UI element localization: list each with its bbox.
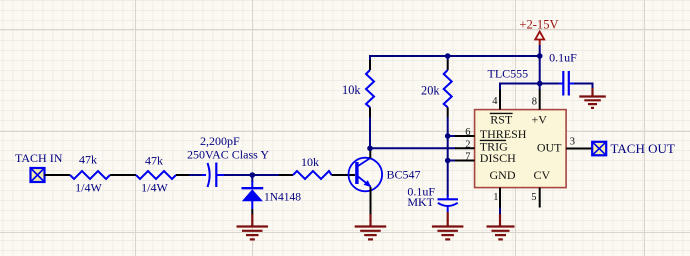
U1 pin name RST (overline): [480, 113, 562, 182]
pin: R5 bottom black: [447, 107, 449, 117]
svg-text:7: 7: [465, 152, 470, 163]
wire: THRESH line navy: [448, 135, 456, 137]
wire: diode drop navy: [251, 175, 253, 182]
port TACH IN: [15, 151, 63, 182]
wire: navy to C1: [189, 174, 202, 176]
svg-text:250VAC Class Y: 250VAC Class Y: [187, 148, 269, 162]
resistor R2 47k: [136, 154, 176, 195]
ground under D1: [237, 214, 269, 239]
wire: power rail top navy: [370, 56, 540, 70]
svg-text:10k: 10k: [342, 83, 361, 97]
capacitor C2 0.1uF MKT: [407, 185, 458, 213]
svg-text:2: 2: [465, 139, 470, 150]
capacitor C3 0.1uF: [549, 51, 577, 96]
wire: port to R1 (black lead): [45, 174, 71, 176]
pin 4 RST: [499, 90, 501, 110]
pin: Q1 emitter black: [370, 187, 372, 215]
wire: R1 to R2 (black leads): [110, 174, 136, 176]
pin: Q1 collector black: [369, 151, 371, 158]
svg-text:1N4148: 1N4148: [264, 192, 301, 204]
wire: RST tie navy: [500, 84, 540, 91]
svg-text:CV: CV: [534, 168, 551, 182]
ground under C2: [432, 212, 464, 239]
pin 6 THRESH: [455, 135, 475, 137]
svg-text:RST: RST: [490, 113, 513, 127]
wire: OUT to port navy: [586, 148, 592, 150]
pin 2 TRIG: [455, 147, 475, 149]
ground right of C3: [579, 88, 606, 108]
node junction TRIG: [367, 146, 373, 152]
resistor R4 10k (vertical): [342, 60, 374, 107]
svg-text:47k: 47k: [79, 153, 97, 167]
node junction at diode: [250, 172, 256, 178]
svg-text:TLC555: TLC555: [488, 67, 529, 81]
wire: TRIG line navy: [370, 147, 456, 149]
svg-text:TACH IN: TACH IN: [15, 151, 63, 165]
wire: VCC vertical navy: [539, 45, 541, 90]
pin 1 GND: [499, 188, 501, 208]
pin 8 +V: [539, 90, 541, 110]
svg-text:DISCH: DISCH: [480, 151, 516, 165]
svg-text:5: 5: [531, 192, 536, 203]
node junction bypass: [537, 81, 543, 87]
wire: C3 to ground navy: [574, 84, 593, 89]
svg-text:OUT: OUT: [537, 140, 562, 154]
svg-text:1/4W: 1/4W: [75, 181, 102, 195]
svg-text:GND: GND: [490, 168, 516, 182]
port TACH OUT: [592, 141, 675, 156]
svg-text:2,200pF: 2,200pF: [200, 134, 240, 148]
transistor Q1 BC547: [349, 158, 421, 192]
pin 5 CV: [539, 188, 541, 208]
pin: diode bottom black: [251, 209, 253, 215]
svg-text:10k: 10k: [301, 155, 319, 169]
svg-text:BC547: BC547: [387, 168, 421, 182]
power port +2-15V: [519, 18, 558, 46]
wire: R2 lead black: [176, 174, 189, 176]
svg-text:+V: +V: [532, 113, 548, 127]
wire: junction to R3 (navy then black lead): [279, 174, 293, 176]
pin name TRIG (overline): [480, 139, 506, 141]
wire: C1 to junction to 10k: [224, 174, 279, 176]
wire: DISCH line navy: [448, 160, 456, 162]
node junction DISCH: [445, 158, 451, 164]
svg-text:1/4W: 1/4W: [141, 181, 168, 195]
svg-text:8: 8: [532, 97, 537, 108]
svg-text:20k: 20k: [421, 84, 440, 98]
node junction THRESH: [445, 133, 451, 139]
svg-text:3: 3: [570, 137, 575, 148]
svg-text:47k: 47k: [145, 154, 163, 168]
pin: R4 bottom black: [369, 107, 371, 117]
svg-text:6: 6: [465, 127, 470, 138]
wire: R3 to Q1 base black leads: [332, 174, 356, 176]
svg-text:TACH OUT: TACH OUT: [611, 141, 675, 156]
svg-text:1: 1: [493, 192, 498, 203]
svg-text:MKT: MKT: [407, 195, 434, 209]
diode D1 1N4148: [242, 181, 302, 209]
resistor R1 47k: [70, 153, 110, 195]
resistor R5 20k (vertical): [421, 53, 452, 107]
capacitor C1 2,200pF 250VAC Class Y: [187, 134, 269, 187]
resistor R3 10k: [293, 155, 332, 179]
ground under Q1: [355, 214, 387, 239]
wire: R5 down navy through THRESH/DISCH to C2: [447, 117, 449, 196]
op-amp U1 TLC555 body: [475, 67, 566, 188]
pin 3 OUT: [566, 148, 586, 150]
pin 7 DISCH: [455, 160, 475, 162]
wire: bypass to C3 navy: [540, 83, 560, 85]
wire: pin1 to ground navy: [499, 208, 501, 216]
ground under pin 1: [487, 214, 515, 239]
svg-text:4: 4: [492, 96, 498, 107]
wire: R4 to collector navy: [369, 117, 371, 151]
node junction rail/VCC: [537, 53, 543, 59]
svg-text:0.1uF: 0.1uF: [549, 51, 577, 65]
svg-text:+2-15V: +2-15V: [519, 18, 558, 32]
